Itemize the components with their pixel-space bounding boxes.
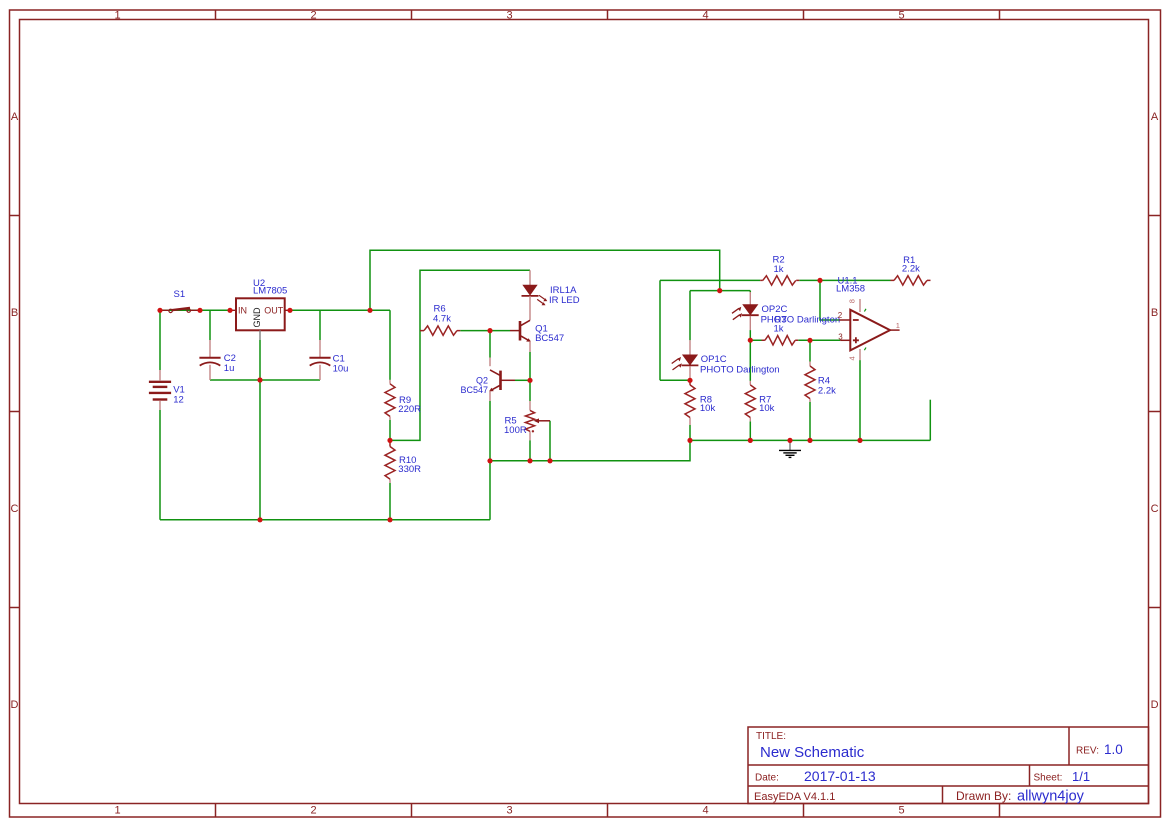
node R4 at ground rail [807, 438, 812, 443]
wire bottom rail battery minus [160, 410, 490, 520]
svg-text:EasyEDA V4.1.1: EasyEDA V4.1.1 [754, 791, 835, 803]
svg-text:IN: IN [238, 306, 247, 316]
resistor R3 1k [762, 339, 799, 341]
wire R6 right to Q1 base [460, 330, 510, 332]
svg-text:1u: 1u [224, 363, 235, 374]
wire R3 right to pin 3 [798, 339, 840, 341]
node U2 IN pin [227, 308, 232, 313]
svg-text:2.2k: 2.2k [902, 264, 920, 275]
R5 wiper arrow [538, 420, 551, 422]
node OP1C cathode / R8 top [687, 378, 692, 383]
svg-text:1: 1 [896, 321, 900, 330]
resistor R4 2.2k [809, 362, 811, 403]
svg-text:3: 3 [506, 9, 512, 21]
wire C2 stub [209, 310, 211, 340]
node R2 / opamp pin2 / R1 [817, 278, 822, 283]
node R8 at ground rail [687, 438, 692, 443]
node S1 right [197, 308, 202, 313]
svg-text:10u: 10u [333, 364, 349, 375]
svg-text:Drawn By:: Drawn By: [956, 789, 1011, 803]
op-amp pin 3 [840, 339, 850, 341]
svg-text:D: D [1151, 699, 1159, 711]
svg-text:100R: 100R [504, 425, 527, 436]
svg-text:1k: 1k [774, 264, 784, 275]
resistor R1 2.2k [891, 279, 931, 281]
svg-text:BC547: BC547 [535, 333, 564, 344]
svg-text:LM7805: LM7805 [253, 285, 287, 296]
svg-text:Sheet:: Sheet: [1034, 772, 1063, 783]
wire Q2 emitter down to ground run [489, 401, 491, 520]
svg-text:2: 2 [310, 805, 316, 817]
svg-text:A: A [1151, 111, 1159, 123]
regulator U2 LM7805 [236, 298, 285, 330]
svg-text:330R: 330R [398, 464, 421, 475]
svg-text:2: 2 [310, 9, 316, 21]
photo darlington OP2C [749, 292, 751, 305]
node R10 bottom at rail [387, 517, 392, 522]
svg-text:4.7k: 4.7k [433, 314, 451, 325]
svg-text:B: B [11, 307, 18, 319]
resistor R2 1k [760, 279, 799, 281]
capacitor C2 1u [209, 340, 211, 357]
svg-text:PHOTO Darlington: PHOTO Darlington [700, 364, 780, 375]
resistor R8 10k [689, 380, 691, 385]
svg-text:220R: 220R [398, 404, 421, 415]
photo darlington OP1C [689, 340, 691, 355]
svg-text:D: D [11, 699, 19, 711]
wire VCC rail S1 to U2 to R9 top [160, 309, 390, 311]
op-amp pin 8 [859, 299, 861, 312]
ground symbol [789, 441, 791, 450]
wire R7 bottom [749, 421, 751, 440]
node OP2C cathode / R3 / R7 top [748, 338, 753, 343]
node U2 GND / C2-C1 net [257, 377, 262, 382]
wire R10 bottom lead [389, 483, 391, 520]
svg-text:1.0: 1.0 [1104, 742, 1123, 757]
svg-text:4: 4 [702, 805, 708, 817]
wire ground rail [690, 439, 930, 441]
svg-text:BC547: BC547 [460, 385, 488, 395]
svg-text:REV:: REV: [1076, 745, 1099, 756]
svg-text:C: C [1151, 503, 1159, 515]
svg-text:4: 4 [702, 9, 708, 21]
node Q1 base / R6 / Q2 collector [487, 328, 492, 333]
wire dangling stub right [929, 400, 931, 441]
op-amp pin 2 [839, 319, 850, 321]
wire opamp pin4 to ground rail [859, 360, 861, 440]
svg-text:allwyn4joy: allwyn4joy [1017, 789, 1085, 805]
wire Q1 emitter to R5 node [529, 352, 531, 401]
svg-text:1/1: 1/1 [1072, 769, 1090, 784]
svg-text:OP2C: OP2C [762, 304, 788, 315]
svg-text:10k: 10k [700, 403, 716, 414]
wire VCC riser to top rail across to photodarlington rail [370, 250, 720, 310]
wire photo darlington top rail [690, 291, 750, 341]
node R7 at ground rail [748, 438, 753, 443]
svg-text:New Schematic: New Schematic [760, 744, 865, 761]
svg-text:5: 5 [898, 805, 904, 817]
svg-text:LM358: LM358 [836, 284, 865, 295]
node S1 left / battery plus [157, 308, 162, 313]
svg-text:IR LED: IR LED [549, 295, 580, 306]
svg-text:2: 2 [838, 311, 843, 320]
svg-text:5: 5 [898, 9, 904, 21]
svg-text:OUT: OUT [264, 306, 284, 316]
wire R2 right to opamp and R1 [799, 279, 890, 281]
node R5 bottom at ground run [527, 458, 532, 463]
svg-text:Date:: Date: [755, 772, 779, 783]
node U2 GND at bottom rail [257, 517, 262, 522]
svg-text:OP1C: OP1C [701, 354, 727, 365]
op-amp minus [853, 319, 859, 321]
LED IRL1A IR LED [529, 270, 531, 285]
wire Q1 base node down to Q2 collector [489, 331, 491, 358]
resistor R10 330R [389, 440, 391, 446]
node R9/R10 divider [387, 438, 392, 443]
op-amp pin 1 output [890, 329, 900, 331]
svg-text:GND: GND [252, 307, 262, 328]
node VCC riser tap [367, 308, 372, 313]
wire R9/R10 node to IR LED feed [390, 270, 530, 440]
wire R4 top [809, 340, 811, 361]
svg-text:2.2k: 2.2k [818, 386, 836, 397]
node U2 OUT pin [287, 308, 292, 313]
wire C2/GND/C1 net [210, 340, 320, 520]
capacitor C1 10u [319, 340, 321, 357]
wire C1 stub [319, 310, 321, 340]
op-amp pin 4 [859, 349, 861, 360]
node Q1 emitter / Q2 base / R5 top [527, 378, 532, 383]
transistor Q1 BC547 [529, 296, 531, 320]
battery V1 [159, 370, 161, 380]
svg-text:A: A [11, 111, 19, 123]
wire inverting input riser [820, 280, 839, 320]
wire Q2 base to R5 top node [515, 379, 530, 381]
svg-text:B: B [1151, 307, 1158, 319]
svg-text:12: 12 [173, 394, 184, 405]
potentiometer R5 100R [529, 401, 531, 440]
svg-text:S1: S1 [174, 289, 186, 300]
svg-text:4: 4 [848, 356, 857, 360]
svg-text:2017-01-13: 2017-01-13 [804, 768, 876, 784]
IRL1A emission arrows [537, 295, 545, 303]
node R3 / opamp pin3 / R4 top [807, 338, 812, 343]
node VCC at photo darlington rail [717, 288, 722, 293]
wire battery top to S1 [159, 311, 161, 370]
wire R9 leads [389, 310, 391, 440]
resistor R9 220R [389, 380, 391, 420]
svg-text:1k: 1k [774, 324, 784, 335]
wire R8 bottom [689, 425, 691, 440]
node opamp pin4 at ground rail [857, 438, 862, 443]
svg-text:10k: 10k [759, 403, 775, 414]
wire R5 bottom and wiper return [530, 421, 550, 461]
wire OP2C bottom to R3 [750, 330, 761, 340]
resistor R7 10k [749, 381, 751, 422]
wire R7 top [749, 340, 751, 381]
node R5 wiper at ground run [547, 458, 552, 463]
node Q2 emitter at ground run [487, 458, 492, 463]
svg-text:1: 1 [114, 805, 120, 817]
switch S1 [161, 309, 199, 311]
svg-text:3: 3 [506, 805, 512, 817]
svg-text:8: 8 [848, 299, 857, 303]
svg-text:1: 1 [114, 9, 120, 21]
svg-text:C: C [11, 503, 19, 515]
transistor Q2 BC547 [489, 358, 491, 367]
wire R4 bottom [809, 402, 811, 440]
wire OP1C bottom net to inverting side [660, 280, 760, 380]
svg-text:3: 3 [838, 333, 843, 342]
node ground symbol tap [787, 438, 792, 443]
wire ground run under R5 [490, 440, 690, 460]
OP2C light arrows [732, 308, 740, 319]
title block [748, 727, 1149, 804]
OP1C light arrows [672, 359, 680, 370]
op-amp U1.1 LM358 [850, 310, 890, 351]
svg-text:TITLE:: TITLE: [756, 731, 786, 742]
op-amp plus [853, 337, 859, 343]
resistor R6 4.7k [420, 330, 460, 332]
